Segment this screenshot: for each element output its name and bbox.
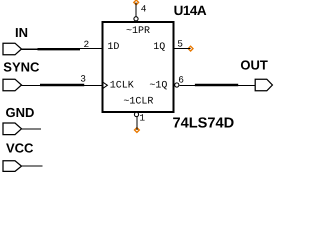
wire OUT (thick segment) — [195, 84, 238, 86]
clock input chevron — [103, 82, 107, 88]
unconnected pin marker (pin 5) — [188, 46, 193, 51]
unconnected pin marker (pin 4) — [134, 0, 139, 5]
wire OUT connector stub — [238, 84, 255, 86]
flip-flop U14A box — [102, 22, 173, 112]
output connector OUT — [255, 79, 272, 91]
svg-text:SYNC: SYNC — [3, 60, 40, 75]
input connector GND — [3, 123, 22, 135]
svg-text:2: 2 — [84, 39, 90, 50]
svg-text:~1Q: ~1Q — [149, 81, 167, 92]
svg-text:OUT: OUT — [240, 58, 268, 73]
svg-text:1Q: 1Q — [153, 42, 165, 53]
svg-text:4: 4 — [141, 4, 147, 15]
svg-text:1D: 1D — [107, 42, 119, 53]
pin 1 (~1CLR) inversion bubble — [134, 112, 138, 116]
wire SYNC connector stub — [22, 84, 41, 86]
pin 5 (1Q) wire — [174, 48, 191, 50]
svg-text:1CLK: 1CLK — [110, 81, 134, 92]
svg-text:6: 6 — [178, 74, 184, 85]
wire GND stub — [22, 128, 42, 130]
wire pin 2 stub — [80, 47, 103, 49]
svg-text:U14A: U14A — [174, 3, 207, 18]
svg-text:5: 5 — [177, 39, 183, 50]
wire SYNC (thick segment) — [40, 84, 84, 86]
wire VCC stub — [22, 165, 43, 167]
input connector IN — [3, 43, 22, 55]
svg-text:74LS74D: 74LS74D — [173, 115, 235, 131]
wire pin 3 stub — [84, 84, 103, 86]
svg-text:1: 1 — [139, 113, 145, 124]
svg-text:~1CLR: ~1CLR — [123, 97, 153, 108]
pin 4 (~1PR) wire — [135, 2, 137, 16]
input connector SYNC — [3, 79, 22, 91]
pin 1 wire — [136, 117, 138, 130]
wire IN (thick segment) — [38, 48, 81, 50]
svg-text:VCC: VCC — [6, 141, 34, 156]
svg-text:GND: GND — [6, 105, 35, 120]
pin 4 inversion bubble — [134, 17, 138, 21]
unconnected pin marker (pin 1) — [135, 128, 140, 133]
svg-text:~1PR: ~1PR — [126, 26, 150, 37]
svg-text:3: 3 — [80, 74, 86, 85]
input connector VCC — [3, 161, 22, 172]
pin 6 (~1Q) inversion bubble — [175, 83, 179, 87]
wire IN connector stub — [22, 48, 39, 50]
wire pin 6 stub — [179, 84, 195, 86]
svg-text:IN: IN — [15, 25, 28, 40]
